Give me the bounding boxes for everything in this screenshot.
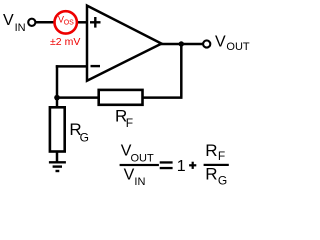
svg-text:OUT: OUT: [226, 41, 250, 53]
svg-text:R: R: [205, 141, 217, 160]
ground: [49, 162, 66, 171]
terminal VIN: [28, 19, 35, 26]
gain equation numerator VOUT: [121, 143, 154, 165]
wire to op-amp inverting input: [56, 65, 87, 68]
gain equation fraction bar VOUT/VIN: [120, 164, 159, 166]
label VOS: [58, 15, 74, 27]
wire RG to ground: [56, 151, 59, 162]
svg-text:F: F: [126, 116, 133, 130]
svg-text:±2 mV: ±2 mV: [50, 36, 80, 48]
voltage source VOS: [54, 11, 76, 33]
svg-text:G: G: [218, 174, 227, 188]
svg-text:V: V: [215, 34, 226, 51]
svg-text:1: 1: [177, 158, 186, 175]
resistor RG: [50, 107, 65, 151]
svg-text:V: V: [124, 166, 135, 183]
svg-text:IN: IN: [15, 22, 26, 34]
svg-text:IN: IN: [134, 176, 145, 188]
terminal VOUT: [203, 40, 210, 47]
svg-text:V: V: [3, 12, 14, 29]
net label VIN: [3, 12, 26, 34]
op-amp U1: [87, 6, 162, 81]
wire RF to node A: [56, 96, 98, 99]
svg-text:OS: OS: [64, 20, 74, 27]
wire node A up to inverting input level: [56, 65, 59, 99]
svg-text:G: G: [80, 131, 89, 145]
wire op-amp output to VOUT terminal: [161, 43, 203, 46]
wire feedback horizontal to RF: [142, 96, 183, 99]
svg-text:F: F: [218, 149, 225, 163]
junction node A: [54, 95, 60, 101]
op-amp − pin label: [91, 65, 101, 67]
junction output node: [179, 41, 184, 46]
svg-text:OUT: OUT: [131, 152, 155, 164]
wire VIN terminal to VOS source: [36, 21, 58, 24]
op-amp + pin label: [90, 17, 101, 28]
gain equation denominator RG: [205, 165, 227, 188]
gain equation plus sign: [189, 162, 196, 169]
net label VOUT: [215, 34, 250, 54]
label RG: [69, 120, 89, 145]
gain equation fraction bar RF/RG: [204, 164, 229, 166]
resistor RF: [99, 90, 143, 105]
svg-text:R: R: [205, 165, 217, 184]
gain equation equals sign: [160, 161, 173, 169]
wire VOS source to op-amp noninverting input: [74, 21, 87, 24]
wire feedback vertical from output node: [180, 44, 183, 98]
gain equation denominator VIN: [124, 166, 146, 188]
gain equation numerator RF: [205, 141, 225, 163]
label RF: [115, 106, 133, 130]
wire node A to RG: [56, 98, 59, 108]
